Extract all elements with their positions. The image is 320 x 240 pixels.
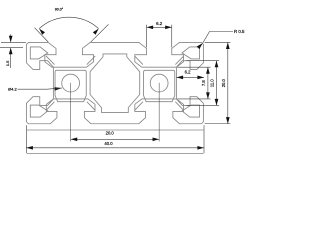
dimension: 7.8 slot back width: [177, 67, 210, 99]
svg-text:20.0: 20.0: [106, 131, 115, 136]
dimension: 11.0 slot interior width: [187, 61, 220, 106]
dimension: 90.0 deg V-slot angle: [35, 7, 109, 42]
web diagonal: [135, 102, 143, 111]
profile outer outline with six V-slot grooves: [26, 42, 203, 123]
svg-text:11.0: 11.0: [210, 79, 215, 88]
leader: R 0.5 corner radius: [197, 29, 245, 49]
web diagonal: [87, 102, 95, 111]
web diagonal: [46, 102, 54, 111]
boss outline around hole: [55, 70, 86, 101]
svg-text:90.0°: 90.0°: [55, 7, 64, 11]
web diagonal: [175, 56, 183, 65]
dimension area boundary lines: [27, 129, 203, 131]
svg-text:40.0: 40.0: [104, 141, 113, 146]
svg-text:1.5: 1.5: [5, 60, 10, 66]
svg-text:6.2: 6.2: [156, 21, 163, 26]
svg-text:6.2: 6.2: [185, 70, 191, 75]
web diagonal: [135, 56, 143, 65]
leader: diameter 4.2 center hole: [8, 87, 62, 92]
corner cavity bottom-right: [182, 105, 200, 117]
dimension: 20.0 hole pitch: [71, 83, 159, 142]
corner cavity top-left: [30, 47, 48, 59]
web diagonal: [46, 56, 54, 65]
corner cavity top-right: [182, 47, 200, 59]
dimension: 1.5 lip chamfer depth: [0, 34, 26, 68]
svg-text:R 0.5: R 0.5: [234, 29, 245, 34]
web diagonal: [87, 56, 95, 65]
svg-text:7.8: 7.8: [201, 80, 206, 86]
svg-text:Ø4.2: Ø4.2: [8, 87, 17, 92]
boss outline around hole: [144, 70, 175, 101]
dimension: 40.0 profile width: [26, 125, 204, 153]
web diagonal: [175, 102, 183, 111]
center hole circle left (dia 4.2): [62, 74, 80, 92]
dimension: 6.2 top slot opening: [147, 21, 172, 47]
dimension: 20.0 profile height: [205, 42, 231, 123]
svg-text:20.0: 20.0: [221, 78, 226, 87]
corner cavity bottom-left: [30, 105, 48, 117]
central octagon cavity: [90, 54, 140, 113]
dimension: 6.2 end slot depth: [177, 70, 205, 80]
center hole circle right (dia 4.2): [150, 74, 168, 92]
